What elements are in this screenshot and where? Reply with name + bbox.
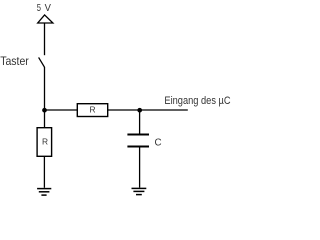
node junction dot right <box>137 108 142 113</box>
resistor R (series, horizontal) <box>77 104 107 117</box>
resistor R (pull-down, vertical) <box>37 128 52 157</box>
wire from switch to resistor R (pull-down) <box>44 67 46 128</box>
wire from 5V symbol to switch <box>44 23 46 55</box>
capacitor C bottom plate <box>127 146 149 148</box>
svg-text:Taster: Taster <box>0 54 29 68</box>
node junction dot left <box>42 108 47 113</box>
svg-text:R: R <box>89 104 95 114</box>
power supply symbol (open triangle) <box>38 15 53 23</box>
wire from right junction to capacitor <box>139 110 141 134</box>
svg-text:C: C <box>155 138 162 149</box>
switch S1 (Taster) lever <box>39 57 45 67</box>
wire from series resistor to output <box>108 109 188 111</box>
ground symbol left <box>37 189 51 196</box>
svg-text:R: R <box>42 136 48 146</box>
ground symbol right <box>132 188 147 194</box>
wire from pull-down resistor to ground <box>43 156 45 188</box>
svg-text:Eingang des µC: Eingang des µC <box>164 95 230 107</box>
wire from capacitor to ground <box>139 147 141 187</box>
svg-text:V: V <box>45 3 51 14</box>
capacitor C top plate <box>127 134 149 136</box>
svg-text:5: 5 <box>37 3 41 14</box>
wire from junction to series resistor <box>45 109 78 111</box>
